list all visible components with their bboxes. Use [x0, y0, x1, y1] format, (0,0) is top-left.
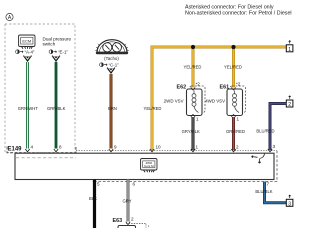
wire end chevron GRN/BLK: [54, 149, 58, 152]
svg-text:6: 6: [133, 181, 136, 186]
svg-text:E149: E149: [8, 147, 23, 153]
svg-text:BLU/BLK: BLU/BLK: [255, 189, 272, 194]
wire end chevron GRY/BLK: [191, 149, 195, 152]
svg-text:ECM: ECM: [22, 39, 31, 44]
node A: [6, 13, 13, 20]
engine compartment dashed box: [5, 24, 75, 153]
wire GRN/BLK: [55, 62, 58, 149]
connector terminal E-1: [52, 55, 60, 62]
branch arrows symbol: [252, 154, 265, 164]
connector E149 outline: [7, 147, 76, 153]
svg-text:YEL/RED: YEL/RED: [184, 65, 202, 70]
svg-text:GRY/BLK: GRY/BLK: [182, 129, 200, 134]
wire BRN: [110, 74, 113, 149]
svg-text:GRN/WHT: GRN/WHT: [18, 106, 38, 111]
svg-text:9: 9: [114, 145, 117, 150]
wire end chevron BLU/RED: [268, 149, 272, 152]
wire BLK: [93, 180, 96, 229]
svg-text:BLK: BLK: [89, 196, 97, 201]
svg-text:1: 1: [237, 117, 240, 122]
connector terminal C-1: [107, 67, 115, 74]
svg-text:1: 1: [196, 145, 199, 150]
svg-text:Cont M: Cont M: [144, 164, 154, 168]
page box 3: [286, 195, 293, 207]
svg-text:2WD VSV: 2WD VSV: [164, 98, 184, 103]
svg-text:3: 3: [288, 201, 291, 207]
svg-text:E63: E63: [113, 218, 123, 224]
svg-text:BRN: BRN: [108, 106, 117, 111]
svg-text:“E-1”: “E-1”: [58, 50, 68, 55]
connector E63: [113, 217, 149, 229]
wire GRY/BLK: [192, 117, 195, 150]
svg-text:YEL/RED: YEL/RED: [144, 106, 162, 111]
wire end chevron GRN/WHT: [25, 149, 29, 152]
svg-text:E62: E62: [177, 85, 187, 91]
solenoid E62: [177, 82, 206, 122]
wire YEL/RED trunk: [152, 47, 286, 150]
svg-text:*2: *2: [196, 82, 201, 87]
svg-text:1: 1: [288, 47, 291, 53]
module 4WD control box: [15, 153, 274, 179]
junction dot 1: [191, 45, 195, 49]
svg-text:GRY/RED: GRY/RED: [226, 129, 245, 134]
wire GRN/WHT: [26, 62, 29, 149]
svg-text:7: 7: [267, 182, 270, 187]
page ref A-4: [16, 50, 35, 55]
svg-text:1: 1: [196, 117, 199, 122]
svg-text:2: 2: [288, 102, 291, 108]
svg-text:8: 8: [59, 145, 62, 150]
page ref E-1: [49, 50, 68, 55]
svg-text:*2: *2: [236, 82, 241, 87]
svg-text:“C-1”: “C-1”: [109, 63, 120, 68]
op-amp U1 ECM: [19, 35, 36, 49]
tachometer gauge icon: [95, 40, 129, 55]
E149 inner dashed: [16, 157, 76, 159]
module icon 4WD Cont: [141, 159, 158, 173]
svg-text:10: 10: [156, 145, 162, 150]
svg-text:2: 2: [236, 145, 239, 150]
svg-text:BLU/RED: BLU/RED: [256, 129, 274, 134]
svg-text:4: 4: [31, 145, 34, 150]
wire BLU/RED: [270, 104, 286, 151]
wire end chevron BRN: [109, 149, 113, 152]
connector terminal A-4: [24, 55, 32, 62]
junction dot 2: [231, 45, 235, 49]
svg-text:Non-asterisked connector: For: Non-asterisked connector: For Petrol / D…: [185, 10, 292, 16]
wire GRY/RED: [232, 117, 235, 150]
diesel dashed connector overlay: [92, 151, 277, 182]
svg-text:switch: switch: [43, 42, 56, 47]
page ref C-1: [100, 63, 120, 68]
svg-text:GRY: GRY: [123, 198, 132, 203]
solenoid E61: [220, 82, 246, 122]
svg-text:5: 5: [97, 181, 100, 186]
connector row dotted line: [76, 150, 277, 152]
wire YEL/RED drop E62: [192, 47, 195, 88]
wire YEL/RED drop E61: [232, 47, 235, 88]
svg-text:3: 3: [273, 144, 276, 149]
wire GRY: [127, 180, 130, 222]
svg-text:GRN/BLK: GRN/BLK: [47, 106, 66, 111]
svg-text:YEL/RED: YEL/RED: [224, 65, 242, 70]
page box 1: [286, 41, 293, 53]
page box 2: [286, 96, 293, 108]
svg-text:2: 2: [131, 217, 134, 222]
wire end chevron YEL: [150, 149, 154, 152]
svg-text:“A-4”: “A-4”: [25, 50, 35, 55]
wire end chevron GRY/RED: [231, 149, 235, 152]
svg-text:4WD VSV: 4WD VSV: [205, 98, 225, 103]
svg-text:(Tacho): (Tacho): [104, 56, 119, 61]
wire BLU/BLK: [265, 182, 287, 203]
